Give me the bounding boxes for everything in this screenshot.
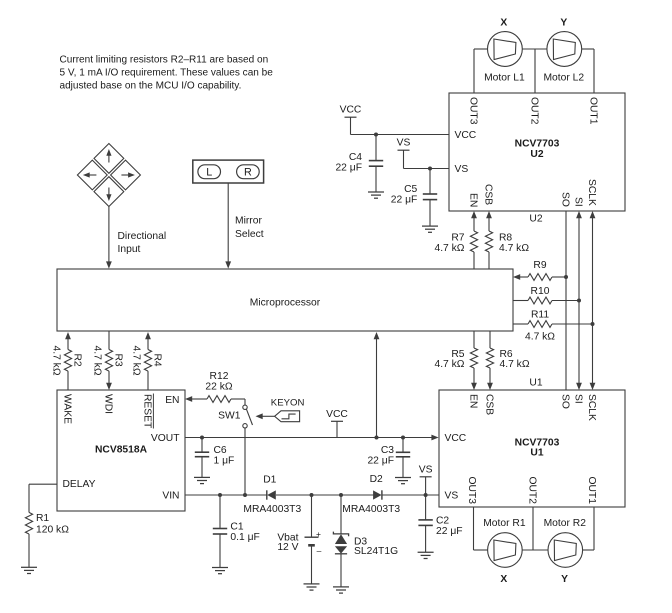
wire OUT3 U2 to motor L1 [474,49,488,93]
svg-text:Microprocessor: Microprocessor [250,298,321,309]
wire EN to R12 [185,396,207,402]
regulator IC NCV8518A [57,390,185,511]
svg-text:12 V: 12 V [277,542,298,553]
node Vbat junction [310,493,314,497]
wire SCLK [590,211,596,390]
resistor R11 [513,310,595,328]
wire directional input to microprocessor [106,207,112,269]
svg-text:1 μF: 1 μF [214,456,235,467]
pin OUT3 U2 [467,97,478,125]
svg-text:VIN: VIN [162,490,179,501]
pin VCC U1 [445,433,467,444]
svg-text:R10: R10 [531,286,550,297]
svg-text:Input: Input [118,244,141,255]
svg-text:0.1 μF: 0.1 μF [230,532,259,543]
motor R1 [483,518,526,567]
svg-text:CSB: CSB [483,394,494,415]
pin VCC U2 [455,130,477,141]
svg-text:C5: C5 [404,184,417,195]
node VCC-C4 junction [374,133,378,137]
svg-text:NCV8518A: NCV8518A [95,445,148,456]
svg-text:Motor L1: Motor L1 [484,73,525,84]
pin SCLK U2 [586,179,597,206]
svg-text:R9: R9 [533,260,546,271]
note text [60,55,274,92]
svg-text:SW1: SW1 [218,410,241,421]
pin SO U1 [559,394,570,409]
ground C1 [212,568,228,574]
pin CSB U2 [482,184,493,205]
svg-text:4.7 kΩ: 4.7 kΩ [500,359,530,370]
wire DELAY to R1 [29,484,57,512]
svg-text:VCC: VCC [326,409,348,420]
svg-text:VS: VS [419,464,433,475]
pin VOUT [151,433,180,444]
capacitor C2 22uF [418,495,462,552]
svg-text:D2: D2 [370,474,383,485]
svg-text:SCLK: SCLK [586,394,597,421]
svg-text:X: X [500,574,507,585]
svg-text:X: X [500,18,507,29]
pin CSB U1 [483,394,494,415]
svg-text:SI: SI [572,394,583,404]
label Y bottom [561,574,568,585]
svg-text:R2: R2 [72,354,83,367]
svg-text:VS: VS [397,138,411,149]
pin OUT2 U2 [528,97,539,125]
svg-text:OUT1: OUT1 [587,97,598,125]
wire VCC to U2 [351,134,450,136]
wire VS to U2 [404,168,450,170]
svg-text:L: L [206,167,212,179]
resistor R9 [513,260,568,281]
pin VS U1 [445,490,459,501]
battery Vbat 12V [277,495,321,584]
label U1 [529,378,542,389]
pin SI U2 [572,197,583,207]
svg-text:VCC: VCC [340,105,362,116]
label X top [500,18,507,29]
svg-text:OUT3: OUT3 [467,97,478,125]
directional input keypad [77,144,140,207]
svg-text:22 μF: 22 μF [391,195,418,206]
pin WDI [102,394,113,414]
svg-text:4.7 kΩ: 4.7 kΩ [131,346,142,376]
node C6 junction [200,436,204,440]
svg-text:MRA4003T3: MRA4003T3 [243,504,301,515]
diode D1 MRA4003T3 [243,475,301,515]
wire SO [565,211,567,390]
pin OUT1 U2 [587,97,598,125]
svg-text:R4: R4 [152,354,163,367]
ground C6 [194,477,210,483]
ground Vbat [304,584,320,590]
wire CSB U2 line [486,211,492,269]
driver IC U1 NCV7703 [439,390,625,507]
svg-text:WAKE: WAKE [61,394,72,424]
svg-text:22 μF: 22 μF [436,526,463,537]
svg-text:22 kΩ: 22 kΩ [205,382,232,393]
svg-text:EN: EN [467,193,478,207]
wire motor R2 to OUT1 U1 [583,507,594,550]
resistor R1 120k [25,512,69,567]
pin OUT2 U1 [526,477,537,505]
resistor R3 4.7k wdi line [92,331,124,390]
svg-text:WDI: WDI [102,394,113,414]
capacitor C1 0.1uF [213,495,260,568]
svg-text:KEYON: KEYON [271,397,305,408]
svg-text:22 μF: 22 μF [335,162,362,173]
svg-text:R6: R6 [500,349,513,360]
svg-text:VCC: VCC [445,433,467,444]
switch SW1 [218,405,252,428]
diode D3 SL24T1G [333,495,398,587]
svg-text:SL24T1G: SL24T1G [354,546,398,557]
power VS mid [419,464,433,495]
resistor R8 4.7k [485,231,529,254]
wire EN U1 line [471,331,477,390]
svg-text:OUT2: OUT2 [528,97,539,125]
label 4.7k for R9-R11 [525,332,555,343]
pin VIN [162,490,179,501]
wire SW1 to VIN rail [244,428,246,495]
svg-text:adjusted base on the MCU I/O c: adjusted base on the MCU I/O capability. [60,81,242,92]
pin EN NCV8518A [165,395,179,406]
resistor R5 4.7k [434,348,477,370]
svg-text:D1: D1 [263,475,276,486]
svg-text:OUT2: OUT2 [526,477,537,505]
svg-text:DELAY: DELAY [63,479,96,490]
svg-text:VCC: VCC [455,130,477,141]
pin SI U1 [572,394,583,404]
diode D2 MRA4003T3 [342,474,400,515]
svg-text:R5: R5 [451,349,464,360]
svg-text:C6: C6 [214,445,227,456]
node C1 junction [218,493,222,497]
svg-text:R: R [244,167,252,179]
node VS-C5 junction [428,167,432,171]
wire EN U2 line [471,211,477,269]
label Directional Input [118,231,167,255]
ground C5 [422,226,438,232]
svg-text:CSB: CSB [482,184,493,205]
svg-text:OUT1: OUT1 [586,477,597,505]
power VCC mid [326,409,348,438]
svg-text:4.7 kΩ: 4.7 kΩ [51,346,62,376]
resistor R6 4.7k [486,348,529,370]
svg-text:R12: R12 [210,371,229,382]
svg-text:SCLK: SCLK [586,179,597,206]
driver IC U2 NCV7703 [449,93,625,211]
wire motor L1 to motor L2 and OUT2 [522,49,547,93]
node MCU supply junction [375,436,379,440]
svg-text:4.7 kΩ: 4.7 kΩ [434,359,464,370]
pin EN U1 [467,394,478,408]
svg-text:SO: SO [559,192,570,207]
resistor R4 4.7k reset line [131,332,163,390]
capacitor C4 22uF [335,135,383,193]
svg-text:Current limiting resistors R2–: Current limiting resistors R2–R11 are ba… [60,55,269,66]
capacitor C6 1uF [195,438,235,478]
svg-text:OUT3: OUT3 [466,477,477,505]
svg-text:4.7 kΩ: 4.7 kΩ [434,243,464,254]
mirror select switch [193,160,264,183]
svg-text:Mirror: Mirror [235,216,262,227]
pin SO U2 [559,192,570,207]
svg-text:R8: R8 [499,233,512,244]
wire R12 to SW1 [231,399,245,405]
svg-text:R7: R7 [451,233,464,244]
node C3 junction [401,436,405,440]
wire CSB U1 line [487,331,493,390]
svg-text:Motor R2: Motor R2 [544,518,587,529]
label Y top [560,18,567,29]
svg-text:Y: Y [561,574,568,585]
wire MCU supply [374,332,380,438]
ground R1 [21,567,37,573]
svg-text:U2: U2 [530,149,543,160]
pin OUT3 U1 [466,477,477,505]
pin OUT1 U1 [586,477,597,505]
svg-text:EN: EN [467,394,478,408]
svg-text:+: + [316,529,321,539]
svg-text:VOUT: VOUT [151,433,180,444]
resistor R10 [513,286,581,304]
svg-text:MRA4003T3: MRA4003T3 [342,504,400,515]
motor L2 [543,32,584,84]
svg-text:R3: R3 [113,354,124,367]
svg-text:Motor R1: Motor R1 [483,518,526,529]
wire VIN rail [185,494,439,496]
keyon signal tag [256,397,305,421]
node D3 junction [339,493,343,497]
svg-text:4.7 kΩ: 4.7 kΩ [499,243,529,254]
power VCC top [340,105,362,135]
svg-text:C2: C2 [436,516,449,527]
node C2 junction [424,493,428,497]
ground C2 [418,552,434,558]
svg-text:5 V, 1 mA I/O requirement. The: 5 V, 1 mA I/O requirement. These values … [60,68,274,79]
ground C3 [395,478,411,484]
svg-text:U1: U1 [529,378,542,389]
motor R2 [544,518,587,567]
svg-text:4.7 kΩ: 4.7 kΩ [92,346,103,376]
node SW1 junction [243,493,247,497]
svg-text:RESET: RESET [141,394,152,429]
pin EN U2 [467,193,478,207]
svg-text:VS: VS [445,490,459,501]
wire VOUT rail [185,435,439,441]
svg-text:SI: SI [572,197,583,207]
label U2 [529,214,542,225]
label Mirror Select [235,216,264,241]
motor L1 [484,32,525,84]
microprocessor U3 [57,269,513,331]
svg-text:R1: R1 [36,513,49,524]
wire motor R1 to motor R2 and OUT2 [522,507,548,550]
svg-text:Motor L2: Motor L2 [543,73,584,84]
resistor R7 4.7k [434,231,477,254]
power VS top [397,138,411,169]
pin WAKE [61,394,72,424]
wire mirror select to microprocessor [225,183,231,269]
svg-text:Y: Y [560,18,567,29]
pin DELAY [63,479,96,490]
svg-text:120 kΩ: 120 kΩ [36,525,69,536]
svg-text:SO: SO [559,394,570,409]
svg-text:C4: C4 [349,152,362,163]
capacitor C3 22uF [367,438,410,478]
wire motor L2 to OUT1 U2 [582,49,594,93]
svg-text:EN: EN [165,395,179,406]
pin VS U2 [455,164,469,175]
ground C4 [368,192,384,198]
svg-text:–: – [317,545,322,555]
svg-text:U2: U2 [529,214,542,225]
svg-text:4.7 kΩ: 4.7 kΩ [525,332,555,343]
svg-text:C3: C3 [381,445,394,456]
svg-text:Directional: Directional [118,231,167,242]
pin SCLK U1 [586,394,597,421]
svg-text:Select: Select [235,229,264,240]
label X bottom [500,574,507,585]
svg-text:22 μF: 22 μF [367,456,394,467]
wire SI [576,211,582,390]
svg-text:VS: VS [455,164,469,175]
resistor R12 22k [205,371,232,402]
resistor R2 4.7k wake line [51,332,83,390]
svg-text:R11: R11 [531,310,549,321]
ground D3 [333,587,349,593]
wire OUT3 U1 to motor R1 [474,507,488,550]
svg-text:U1: U1 [530,448,543,459]
capacitor C5 22uF [391,169,437,227]
pin RESET (active low) [141,394,153,430]
